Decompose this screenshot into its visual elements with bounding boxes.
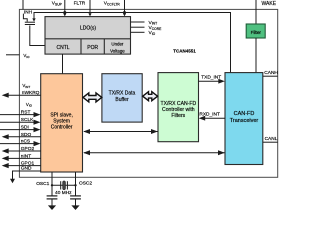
svg-text:TXD_INT: TXD_INT [201,74,221,80]
svg-text:INH: INH [24,10,32,15]
crystal X1 right bar [66,181,68,189]
wire TXD_INT [199,80,221,82]
svg-text:System: System [53,119,70,125]
pin SDI wire [0,129,36,131]
block TX/RX Data Buffer [102,74,142,122]
pin nCS wire [0,143,36,145]
pin VCCFLTR line [124,0,126,14]
ground (C1) [48,205,56,210]
wire CANL [263,141,278,143]
wire crystal top [52,184,76,186]
svg-text:Voltage: Voltage [110,48,125,53]
wire: gate to CNTL [30,26,45,46]
svg-text:CAN-FD: CAN-FD [234,111,255,117]
svg-text:FLTR: FLTR [74,1,86,7]
node: VSUP junction [63,11,66,14]
svg-text:SDO: SDO [21,132,32,138]
pin VSUP line [64,0,66,14]
svg-text:TX/RX Data: TX/RX Data [109,91,136,97]
crystal X1 body [63,181,66,190]
pin VIO top wire [6,54,20,56]
node OSC2 junction [74,184,76,186]
capacitor C2 lead [75,185,77,196]
node: VCCFLTR junction [123,11,126,14]
pin INH line [22,0,24,9]
pin WAKE line (top) [255,0,257,24]
svg-text:SPI slave,: SPI slave, [50,112,73,118]
svg-text:SCLK: SCLK [21,117,34,123]
capacitor C1 lead [51,185,53,196]
svg-text:nWKRQ: nWKRQ [22,90,40,96]
transistor Q1 drain wire [23,14,27,22]
transistor Q1 gate bar [25,24,35,26]
capacitor C1 plates [47,195,58,197]
pin OSC2 wire [75,172,77,185]
block CAN-FD Transceiver [225,73,263,165]
svg-text:GPO1: GPO1 [21,161,35,167]
svg-text:POR: POR [87,45,98,51]
pin SDO wire [7,136,41,138]
svg-text:SDI: SDI [21,125,29,131]
svg-text:Filter: Filter [251,30,262,35]
svg-text:CANL: CANL [265,136,278,142]
wire: VSUP feed to transceiver [34,13,231,73]
svg-text:OSC1: OSC1 [36,181,49,187]
svg-text:CNTL: CNTL [56,45,69,51]
capacitor C2 lower lead [75,199,77,206]
svg-text:CANH: CANH [264,70,278,76]
pin GPO2 wire [7,150,41,152]
LDO row divider [45,38,131,40]
pin nINT wire [7,157,41,159]
svg-text:RXD_INT: RXD_INT [199,111,220,117]
wire VIO output [131,31,145,33]
arrow into LDO (VSUP) [63,13,66,16]
capacitor C1 lower lead [51,199,53,206]
node OSC1 junction [51,184,53,186]
wire RXD_INT [203,117,225,119]
transistor Q1 channel bar [25,21,35,23]
svg-text:TCAN4551: TCAN4551 [173,49,196,54]
pin RST wire [0,114,36,116]
capacitor C2 plates [70,195,81,197]
wire VCORE output [131,26,145,28]
arrow into LDO (VCCFLTR) [123,13,126,16]
block TX/RX CAN-FD Controller with Filters [158,73,199,142]
transistor Q1 source wire [33,13,35,19]
svg-text:Controller: Controller [51,125,73,131]
pin GPO1 wire [7,165,41,167]
crystal X1 left bar [60,181,62,189]
svg-text:Under: Under [111,41,123,46]
svg-text:TX/RX CAN-FD: TX/RX CAN-FD [160,101,196,107]
pin OSC1 wire [51,172,53,185]
wire VINT output [131,21,145,23]
wire CANH [263,75,278,77]
ground (C2) [71,205,79,210]
svg-text:Filters: Filters [171,113,185,119]
block LDO(s) [45,17,131,55]
divider CNTL/POR [80,39,82,54]
pin GND wire [13,171,41,179]
divider POR/UnderVoltage [103,39,105,54]
wire SPI-Transceiver (double arrow) [84,152,225,154]
wire: filter to transceiver [255,38,257,73]
chip boundary TCAN4551 (outline) [19,9,277,177]
bus arrow SPI-Buffer [83,93,102,102]
block SPI slave / System Controller [41,74,83,172]
svg-text:Buffer: Buffer [115,97,129,103]
svg-text:OSC2: OSC2 [79,181,92,187]
arrow into LDO (FLTR) [88,13,91,16]
svg-text:Controller with: Controller with [162,107,195,113]
svg-text:nINT: nINT [21,153,31,159]
svg-text:LDO(s): LDO(s) [80,26,96,32]
wire: CNTL to SPI controller [62,54,64,74]
bus arrow Buffer-Controller [143,92,158,101]
filter box [246,24,265,38]
ground (GND pin) [10,179,15,183]
pin nWKRQ wire [7,94,41,96]
wire SPI-Controller (double arrow) [84,131,158,133]
svg-text:RST: RST [21,110,31,116]
svg-text:40 MHz: 40 MHz [55,190,72,196]
svg-text:GPO2: GPO2 [21,146,35,152]
svg-text:Transceiver: Transceiver [230,118,259,124]
pin FLTR line [89,0,91,14]
svg-text:nCS: nCS [21,139,30,145]
pin SCLK wire [0,121,36,123]
svg-text:WAKE: WAKE [262,1,277,7]
transistor Q1 source arrow [32,18,35,21]
